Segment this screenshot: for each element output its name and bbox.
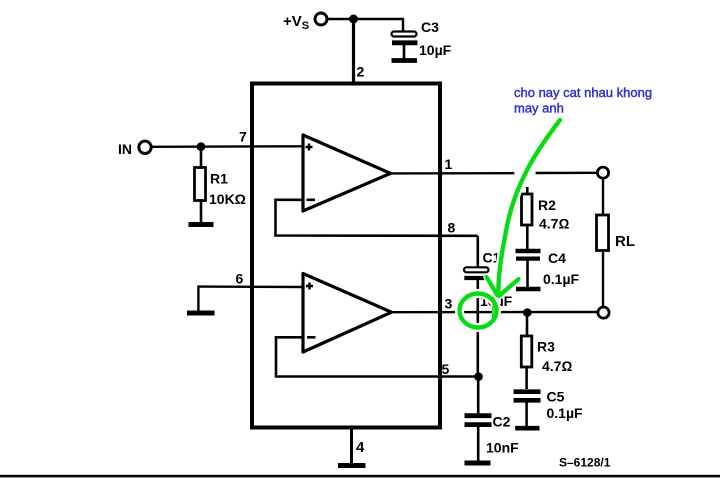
svg-text:6: 6 xyxy=(236,271,244,287)
terminal +Vs xyxy=(315,13,327,25)
svg-text:R1: R1 xyxy=(210,171,228,187)
plus mark U1B xyxy=(306,283,313,290)
capacitor C1 xyxy=(476,236,479,268)
resistor R2 xyxy=(526,187,529,194)
annotation green curve xyxy=(498,120,560,295)
terminal OUT top xyxy=(597,167,608,178)
svg-text:R2: R2 xyxy=(538,197,556,213)
wire feedback U1A xyxy=(276,200,478,236)
annotation green circle xyxy=(460,294,497,328)
svg-text:C4: C4 xyxy=(548,250,566,266)
plus mark U1A xyxy=(306,144,313,151)
svg-text:C5: C5 xyxy=(547,389,565,405)
annotation green arrowhead halo xyxy=(487,277,519,296)
capacitor C2 xyxy=(465,413,492,418)
wire +Vs to junction xyxy=(327,18,403,20)
ground C5 xyxy=(515,426,539,431)
wire pin 4 xyxy=(350,429,353,463)
svg-text:4.7Ω: 4.7Ω xyxy=(542,358,572,374)
minus mark U1B xyxy=(307,336,316,339)
wire junction to C3 top xyxy=(402,18,404,33)
resistor R3 xyxy=(526,313,529,336)
svg-text:1: 1 xyxy=(445,156,453,172)
wire pin5 node to C2 xyxy=(477,377,480,414)
svg-text:0.1µF: 0.1µF xyxy=(547,405,584,421)
svg-text:RL: RL xyxy=(615,233,635,250)
wire IN to pin 7 xyxy=(151,145,303,148)
ground pin 6 xyxy=(187,311,215,316)
wire pin 2 supply xyxy=(352,19,355,83)
svg-text:4: 4 xyxy=(356,439,365,456)
svg-text:8: 8 xyxy=(448,220,456,236)
svg-text:10KΩ: 10KΩ xyxy=(209,191,246,207)
node Vs junction xyxy=(349,15,358,24)
svg-text:0.1µF: 0.1µF xyxy=(543,271,580,287)
svg-text:cho nay cat nhau khong: cho nay cat nhau khong xyxy=(514,85,652,100)
svg-text:may anh: may anh xyxy=(514,101,564,116)
annotation green circle halo xyxy=(460,294,497,328)
node pin3 junction xyxy=(523,308,532,317)
capacitor C3 xyxy=(392,32,417,37)
svg-text:2: 2 xyxy=(357,64,365,80)
annotation green thin tail xyxy=(493,297,494,322)
capacitor C4 xyxy=(516,249,541,254)
svg-text:4.7Ω: 4.7Ω xyxy=(539,216,569,232)
op-amp U1B xyxy=(303,274,392,353)
wire pin 3 output xyxy=(390,311,598,314)
wire feedback U1B xyxy=(276,337,478,376)
terminal OUT bottom xyxy=(598,307,609,318)
ground C3 xyxy=(392,58,418,63)
svg-text:10µF: 10µF xyxy=(419,42,452,58)
ground pin 4 xyxy=(338,463,366,468)
wire pin 6 input xyxy=(198,285,303,288)
svg-text:7: 7 xyxy=(239,129,247,145)
ground C4 xyxy=(516,287,541,292)
svg-text:5: 5 xyxy=(442,361,450,377)
bottom border line xyxy=(0,475,720,478)
svg-text:3: 3 xyxy=(445,296,453,312)
annotation green curve white halo xyxy=(498,120,560,295)
svg-text:C3: C3 xyxy=(421,19,439,35)
ground C2 xyxy=(465,461,491,466)
ground R1 xyxy=(189,222,214,227)
minus mark U1A xyxy=(307,199,316,202)
node IN junction xyxy=(197,142,206,151)
capacitor C5 xyxy=(514,389,541,394)
op-amp U1A xyxy=(303,135,391,211)
svg-text:+VS: +VS xyxy=(283,13,309,32)
svg-text:IN: IN xyxy=(118,141,132,157)
node pin5 junction xyxy=(474,372,483,381)
resistor R1 xyxy=(200,147,203,167)
svg-text:10nF: 10nF xyxy=(486,440,519,456)
svg-text:R3: R3 xyxy=(537,339,555,355)
svg-text:C2: C2 xyxy=(493,414,511,430)
annotation green arrowhead xyxy=(487,277,519,296)
IC body U1 xyxy=(252,84,440,428)
svg-text:S–6128/1: S–6128/1 xyxy=(559,456,611,470)
terminal IN xyxy=(139,141,151,153)
resistor RL xyxy=(602,178,604,215)
wire pin 1 output xyxy=(389,172,514,175)
